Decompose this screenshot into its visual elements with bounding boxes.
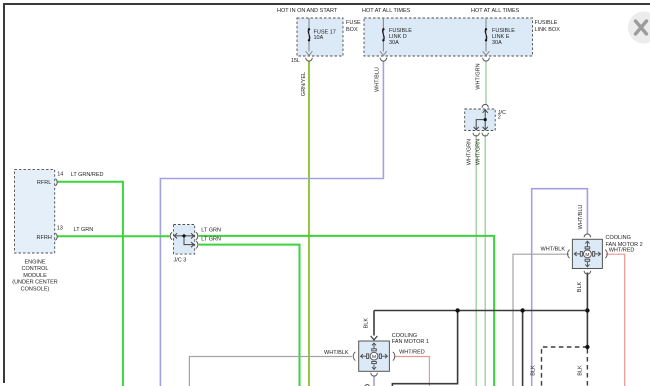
svg-text:BLK: BLK <box>531 365 537 376</box>
svg-text:FUSIBLE: FUSIBLE <box>535 20 558 26</box>
svg-text:WHT/RED: WHT/RED <box>399 350 425 356</box>
svg-text:FUSE: FUSE <box>346 20 361 26</box>
svg-text:RFRL: RFRL <box>37 180 51 186</box>
svg-text:WHT/GRN: WHT/GRN <box>476 63 482 89</box>
svg-text:LT GRN: LT GRN <box>74 227 94 233</box>
svg-text:GRN/YEL: GRN/YEL <box>301 72 307 96</box>
svg-text:M: M <box>372 354 376 360</box>
svg-text:(UNDER CENTER: (UNDER CENTER <box>12 280 58 286</box>
svg-text:BLK: BLK <box>577 281 583 292</box>
svg-text:15L: 15L <box>291 58 300 64</box>
svg-text:J/C 3: J/C 3 <box>174 258 187 264</box>
svg-text:MODULE: MODULE <box>23 273 47 279</box>
svg-text:14: 14 <box>57 171 63 177</box>
svg-text:LT GRN: LT GRN <box>201 228 221 234</box>
svg-text:13: 13 <box>57 225 63 231</box>
svg-text:FAN MOTOR 1: FAN MOTOR 1 <box>392 339 429 345</box>
svg-text:RFRH: RFRH <box>37 235 52 241</box>
svg-text:CONSOLE): CONSOLE) <box>21 287 50 293</box>
svg-text:WHT/GRN: WHT/GRN <box>476 139 482 165</box>
svg-text:WHT/BLK: WHT/BLK <box>324 350 349 356</box>
svg-text:30A: 30A <box>492 40 502 46</box>
svg-text:BLK: BLK <box>363 318 369 329</box>
svg-text:WHT/BLK: WHT/BLK <box>541 247 566 253</box>
svg-text:BLK: BLK <box>577 365 583 376</box>
svg-text:HOT IN ON AND START: HOT IN ON AND START <box>277 8 338 14</box>
svg-text:HOT AT ALL TIMES: HOT AT ALL TIMES <box>362 8 411 14</box>
svg-text:HOT AT ALL TIMES: HOT AT ALL TIMES <box>471 8 520 14</box>
svg-text:LINK BOX: LINK BOX <box>535 27 561 33</box>
svg-text:BOX: BOX <box>346 27 358 33</box>
svg-text:LT GRN/RED: LT GRN/RED <box>71 172 104 178</box>
svg-text:10A: 10A <box>314 35 324 41</box>
svg-text:CONTROL: CONTROL <box>22 266 49 272</box>
svg-text:WHT/RED: WHT/RED <box>609 248 635 254</box>
svg-text:ENGINE: ENGINE <box>24 259 45 265</box>
svg-text:LT GRN: LT GRN <box>201 237 221 243</box>
svg-text:WHT/BLU: WHT/BLU <box>375 67 381 92</box>
svg-text:2: 2 <box>498 115 501 121</box>
svg-text:M: M <box>585 252 589 258</box>
svg-text:WHT/BLU: WHT/BLU <box>578 205 584 230</box>
svg-text:WHT/GRN: WHT/GRN <box>467 139 473 165</box>
svg-text:30A: 30A <box>389 40 399 46</box>
svg-text:COOLING: COOLING <box>606 235 631 241</box>
